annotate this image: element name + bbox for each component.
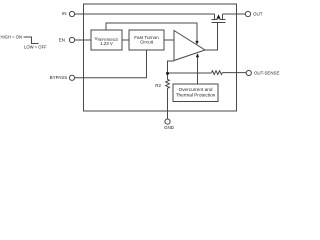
svg-text:OUT: OUT bbox=[253, 12, 263, 17]
svg-text:BYPASS: BYPASS bbox=[50, 75, 68, 80]
svg-text:HIGH = ON: HIGH = ON bbox=[0, 35, 22, 40]
svg-text:EN: EN bbox=[59, 38, 65, 43]
svg-text:LOW = OFF: LOW = OFF bbox=[24, 45, 47, 50]
svg-text:1.23 V: 1.23 V bbox=[100, 41, 113, 46]
svg-text:Circuit: Circuit bbox=[140, 39, 154, 44]
svg-text:GND: GND bbox=[164, 125, 175, 130]
svg-text:Thermal Protection: Thermal Protection bbox=[176, 92, 216, 97]
svg-text:OUT-SENSE: OUT-SENSE bbox=[254, 71, 279, 76]
svg-text:IN: IN bbox=[62, 11, 67, 16]
svg-text:Overcurrent and: Overcurrent and bbox=[179, 87, 213, 92]
svg-text:R2: R2 bbox=[155, 83, 161, 88]
